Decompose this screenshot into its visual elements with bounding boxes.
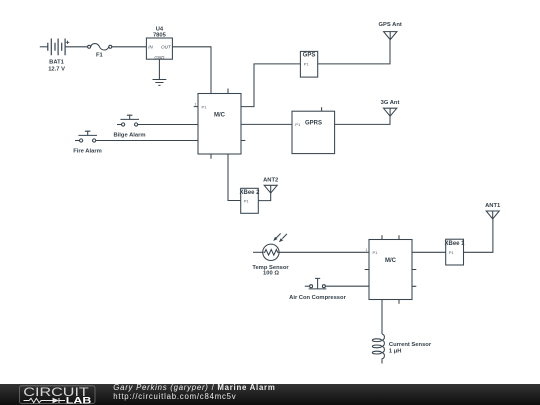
svg-text:LAB: LAB [66, 395, 92, 405]
svg-text:Fire Alarm: Fire Alarm [73, 148, 101, 154]
svg-text:GPRS: GPRS [305, 121, 322, 127]
svg-text:Current Sensor: Current Sensor [389, 342, 432, 348]
svg-text:IN: IN [148, 44, 153, 49]
svg-text:12.7 V: 12.7 V [48, 66, 65, 72]
svg-text:GPS Ant: GPS Ant [379, 22, 402, 28]
svg-text:GPS: GPS [303, 53, 316, 59]
svg-text:XBee 1: XBee 1 [444, 241, 465, 247]
svg-text:http://circuitlab.com/c84mc5v: http://circuitlab.com/c84mc5v [113, 392, 236, 401]
svg-text:P1: P1 [244, 198, 250, 203]
svg-text:ANT2: ANT2 [263, 178, 278, 184]
svg-text:1: 1 [366, 248, 368, 252]
svg-text:P1: P1 [373, 250, 379, 255]
svg-text:1: 1 [195, 102, 197, 106]
svg-text:OUT: OUT [161, 44, 172, 49]
svg-text:P1: P1 [295, 122, 301, 127]
svg-text:M/C: M/C [214, 113, 226, 119]
svg-text:100 Ω: 100 Ω [263, 271, 279, 277]
svg-text:GND: GND [154, 55, 165, 60]
svg-text:Bilge Alarm: Bilge Alarm [114, 132, 146, 138]
svg-text:BAT1: BAT1 [49, 59, 64, 65]
svg-text:F1: F1 [96, 53, 104, 59]
svg-text:P1: P1 [202, 104, 208, 109]
svg-text:P1: P1 [449, 250, 455, 255]
svg-text:ANT1: ANT1 [485, 203, 501, 209]
svg-text:1 μH: 1 μH [389, 348, 402, 354]
svg-text:XBee 2: XBee 2 [239, 190, 260, 196]
svg-text:P1: P1 [304, 62, 310, 67]
svg-text:M/C: M/C [385, 258, 397, 264]
svg-text:7805: 7805 [153, 32, 167, 38]
svg-text:Gary Perkins (garyper) / Marin: Gary Perkins (garyper) / Marine Alarm [113, 383, 275, 392]
svg-text:Air Con Compressor: Air Con Compressor [289, 295, 346, 301]
svg-text:3G Ant: 3G Ant [381, 100, 400, 106]
